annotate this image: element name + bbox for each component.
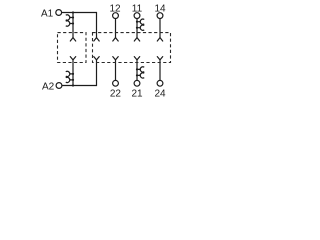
coil branch A2 vertical lead — [72, 60, 74, 86]
fork contact end of A1 coil lead — [70, 38, 75, 41]
fork contact end 12 — [113, 38, 118, 41]
terminal A1 — [56, 10, 62, 16]
wire 21 up — [136, 60, 138, 80]
terminal 21 — [134, 80, 140, 86]
coil chevron contact A2 upper — [70, 73, 73, 75]
coil chevron contact A1 upper — [70, 17, 73, 19]
dashed coil linkage box (left) — [58, 33, 87, 63]
coil chevron contact A1 lower — [70, 23, 73, 25]
terminal 12 — [113, 13, 119, 19]
coil branch A1 vertical lead — [72, 13, 74, 38]
fork contact end 14 — [157, 38, 162, 41]
wire corner up into linkage box — [96, 60, 98, 86]
svg-text:24: 24 — [154, 89, 166, 100]
chevron contact 21 lower — [137, 74, 140, 76]
fork contact end 22 — [113, 57, 118, 60]
terminal 14 — [157, 13, 163, 19]
fork contact end 11 — [134, 38, 139, 41]
wire corner down into linkage box (armature lead) — [96, 13, 98, 38]
junction dot A1 wire/coil — [72, 11, 74, 13]
wire 14 down — [159, 19, 161, 38]
fork contact end of A1 corner lead — [94, 38, 99, 41]
fork contact end of A2 coil lead — [70, 57, 75, 60]
svg-text:A1: A1 — [41, 9, 54, 20]
wire A1 horizontal to corner — [62, 12, 97, 14]
terminal 11 — [134, 13, 140, 19]
fork contact end 21 — [134, 57, 139, 60]
dashed contact linkage box (right) — [93, 33, 171, 63]
terminal 22 — [113, 80, 119, 86]
svg-text:21: 21 — [131, 89, 143, 100]
wire 22 up — [115, 60, 117, 80]
terminal A2 — [56, 83, 62, 89]
chevron contact 11 lower — [137, 27, 140, 29]
chevron contact 21 upper — [137, 68, 140, 70]
wire 24 up — [159, 60, 161, 80]
wire A2 horizontal to corner — [62, 85, 96, 87]
terminal 24 — [157, 80, 163, 86]
wire 11 down — [136, 19, 138, 38]
chevron contact 11 upper — [137, 21, 140, 23]
fork contact end of A2 corner lead — [94, 57, 99, 60]
svg-text:22: 22 — [110, 89, 122, 100]
wire 12 down — [115, 19, 117, 38]
junction dot A2 wire/coil — [72, 84, 74, 86]
fork contact end 24 — [157, 57, 162, 60]
svg-text:A2: A2 — [42, 81, 55, 92]
coil chevron contact A2 lower — [70, 79, 73, 81]
